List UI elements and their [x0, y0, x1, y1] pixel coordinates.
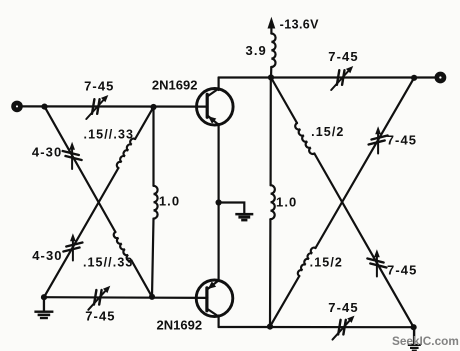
svg-text:4-30: 4-30: [32, 248, 62, 263]
svg-text:2N1692: 2N1692: [157, 317, 203, 332]
svg-text:3.9: 3.9: [246, 43, 267, 58]
svg-text:7-45: 7-45: [387, 133, 417, 148]
svg-text:1.0: 1.0: [159, 194, 180, 209]
svg-text:.15//.33: .15//.33: [84, 128, 135, 142]
svg-text:7-45: 7-45: [328, 300, 358, 315]
svg-text:7-45: 7-45: [85, 309, 115, 324]
svg-text:.15/2: .15/2: [310, 256, 343, 270]
svg-text:7-45: 7-45: [387, 263, 417, 278]
svg-text:-13.6V: -13.6V: [280, 17, 319, 31]
svg-text:7-45: 7-45: [328, 49, 358, 64]
svg-text:1.0: 1.0: [276, 195, 297, 210]
svg-text:SeekIC.com: SeekIC.com: [392, 334, 459, 348]
svg-text:4-30: 4-30: [32, 145, 62, 160]
svg-text:7-45: 7-45: [84, 78, 114, 93]
svg-text:.15/2: .15/2: [311, 125, 344, 139]
svg-text:2N1692: 2N1692: [152, 77, 198, 92]
svg-text:.15//.33: .15//.33: [83, 256, 134, 270]
